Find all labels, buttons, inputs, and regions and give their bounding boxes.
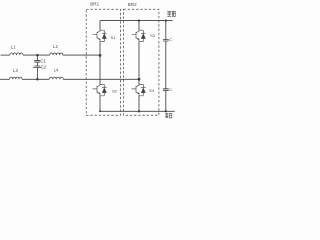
- wire between C1 and C2: [36, 62, 38, 66]
- svg-text:BR1: BR1: [90, 2, 99, 7]
- wire DC top rail: [100, 20, 173, 22]
- node junction top filter to capacitor branch: [36, 54, 39, 57]
- transistor S1 top left: [93, 30, 107, 42]
- wire right leg: [138, 21, 140, 112]
- wire DC capacitor branch: [165, 21, 167, 112]
- wire DC bottom rail: [100, 110, 175, 112]
- transistor S2 bottom left: [93, 84, 107, 96]
- text load label bottom right (two CJK-like glyphs): [165, 113, 172, 118]
- module box BR1: [86, 9, 120, 115]
- wire capacitor branch top: [36, 55, 38, 61]
- svg-text:C: C: [169, 87, 172, 92]
- svg-text:C2: C2: [41, 64, 47, 69]
- wire bottom line right: [63, 78, 139, 80]
- svg-text:L2: L2: [53, 44, 58, 49]
- inductor L2: [50, 53, 63, 55]
- wire top line right: [63, 54, 100, 56]
- node junction bottom rail left leg: [99, 110, 101, 112]
- inductor L4: [49, 77, 63, 79]
- svg-text:C1: C1: [40, 58, 46, 63]
- svg-text:S1: S1: [111, 35, 116, 40]
- text DC side label top right (two CJK-like glyphs): [167, 11, 176, 16]
- wire left leg: [99, 21, 101, 112]
- module box BR2: [124, 9, 159, 115]
- wire bottom line left lead: [0, 78, 10, 80]
- capacitor C1: [34, 61, 40, 63]
- svg-text:BR2: BR2: [128, 2, 137, 7]
- node junction bottom rail DC capacitor: [165, 110, 167, 112]
- node junction top rail DC capacitor: [165, 19, 167, 21]
- inductor L3: [10, 77, 23, 79]
- node junction bottom rail right leg: [138, 110, 140, 112]
- svg-text:C: C: [169, 37, 172, 42]
- capacitor C lower DC link: [163, 89, 169, 91]
- wire top line left lead: [1, 54, 10, 56]
- node junction bottom filter to capacitor branch: [36, 78, 39, 81]
- wire capacitor branch bottom: [36, 68, 38, 80]
- svg-text:S4: S4: [149, 88, 155, 93]
- transistor S3 top right: [132, 30, 146, 42]
- node junction top rail right leg: [138, 19, 140, 21]
- svg-text:S3: S3: [150, 33, 155, 38]
- capacitor C upper DC link: [163, 40, 169, 42]
- svg-text:L1: L1: [11, 44, 16, 49]
- node junction left leg midpoint: [99, 54, 102, 57]
- capacitor C2: [33, 66, 41, 68]
- node junction right leg midpoint: [138, 78, 141, 81]
- svg-text:S2: S2: [112, 88, 117, 93]
- svg-text:L4: L4: [54, 67, 59, 72]
- wire top line middle: [23, 54, 50, 56]
- wire bottom line middle: [22, 78, 49, 80]
- svg-text:L3: L3: [13, 68, 18, 73]
- transistor S4 bottom right: [132, 84, 146, 96]
- inductor L1: [10, 53, 23, 55]
